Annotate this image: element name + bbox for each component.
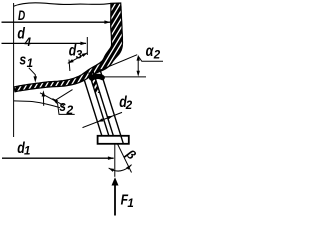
dimension d3 extension lines and slanted arrows	[68, 37, 88, 71]
label s1	[19, 52, 33, 70]
svg-text:2: 2	[125, 100, 133, 112]
force arrow F1	[112, 177, 119, 215]
svg-text:s: s	[19, 52, 26, 68]
svg-text:3: 3	[76, 50, 83, 62]
label d3	[69, 43, 83, 62]
label d4	[17, 25, 31, 49]
force application foot plate	[98, 136, 129, 144]
dimension s2 arrow with leader and underline	[52, 98, 74, 114]
svg-text:D: D	[18, 7, 25, 23]
dimension line D with arrow	[2, 20, 111, 24]
angle beta force line (vertical)	[114, 144, 116, 177]
svg-text:1: 1	[27, 58, 33, 70]
dimension d2 line with arrows across stem	[83, 112, 123, 127]
wavy rim break line	[14, 3, 111, 6]
disc spring section band (hatched)	[0, 0, 246, 110]
svg-text:s: s	[59, 99, 66, 115]
svg-text:4: 4	[24, 37, 32, 49]
angle beta arc with arrows	[109, 165, 132, 172]
label d1	[17, 140, 30, 158]
label d2	[119, 94, 133, 112]
angle beta stem axis extension line	[117, 144, 131, 173]
svg-text:2: 2	[66, 103, 74, 117]
rear finger edge line B	[14, 101, 60, 108]
label F1	[121, 193, 134, 211]
finger root mass under band end	[92, 76, 103, 78]
label alpha2	[146, 43, 161, 62]
angle alpha2 tangent line	[99, 55, 137, 71]
wire: vertical extension line at spring axis side	[13, 3, 15, 137]
svg-text:2: 2	[153, 49, 161, 61]
spring finger stem lines (hatched strip)	[0, 0, 246, 136]
rear finger edge line C	[55, 90, 73, 101]
dimension s1 thickness arrows with leader	[29, 68, 45, 106]
label s2	[59, 99, 73, 117]
rear finger edge line A	[40, 93, 64, 106]
svg-text:1: 1	[127, 198, 133, 210]
angle alpha2 double arrow and leader	[137, 55, 164, 77]
svg-text:1: 1	[24, 146, 30, 158]
dimension line d1 with arrow	[2, 156, 114, 160]
dimension line d4 with arrow	[2, 42, 87, 46]
angle alpha2 horizontal reference line	[98, 76, 146, 78]
